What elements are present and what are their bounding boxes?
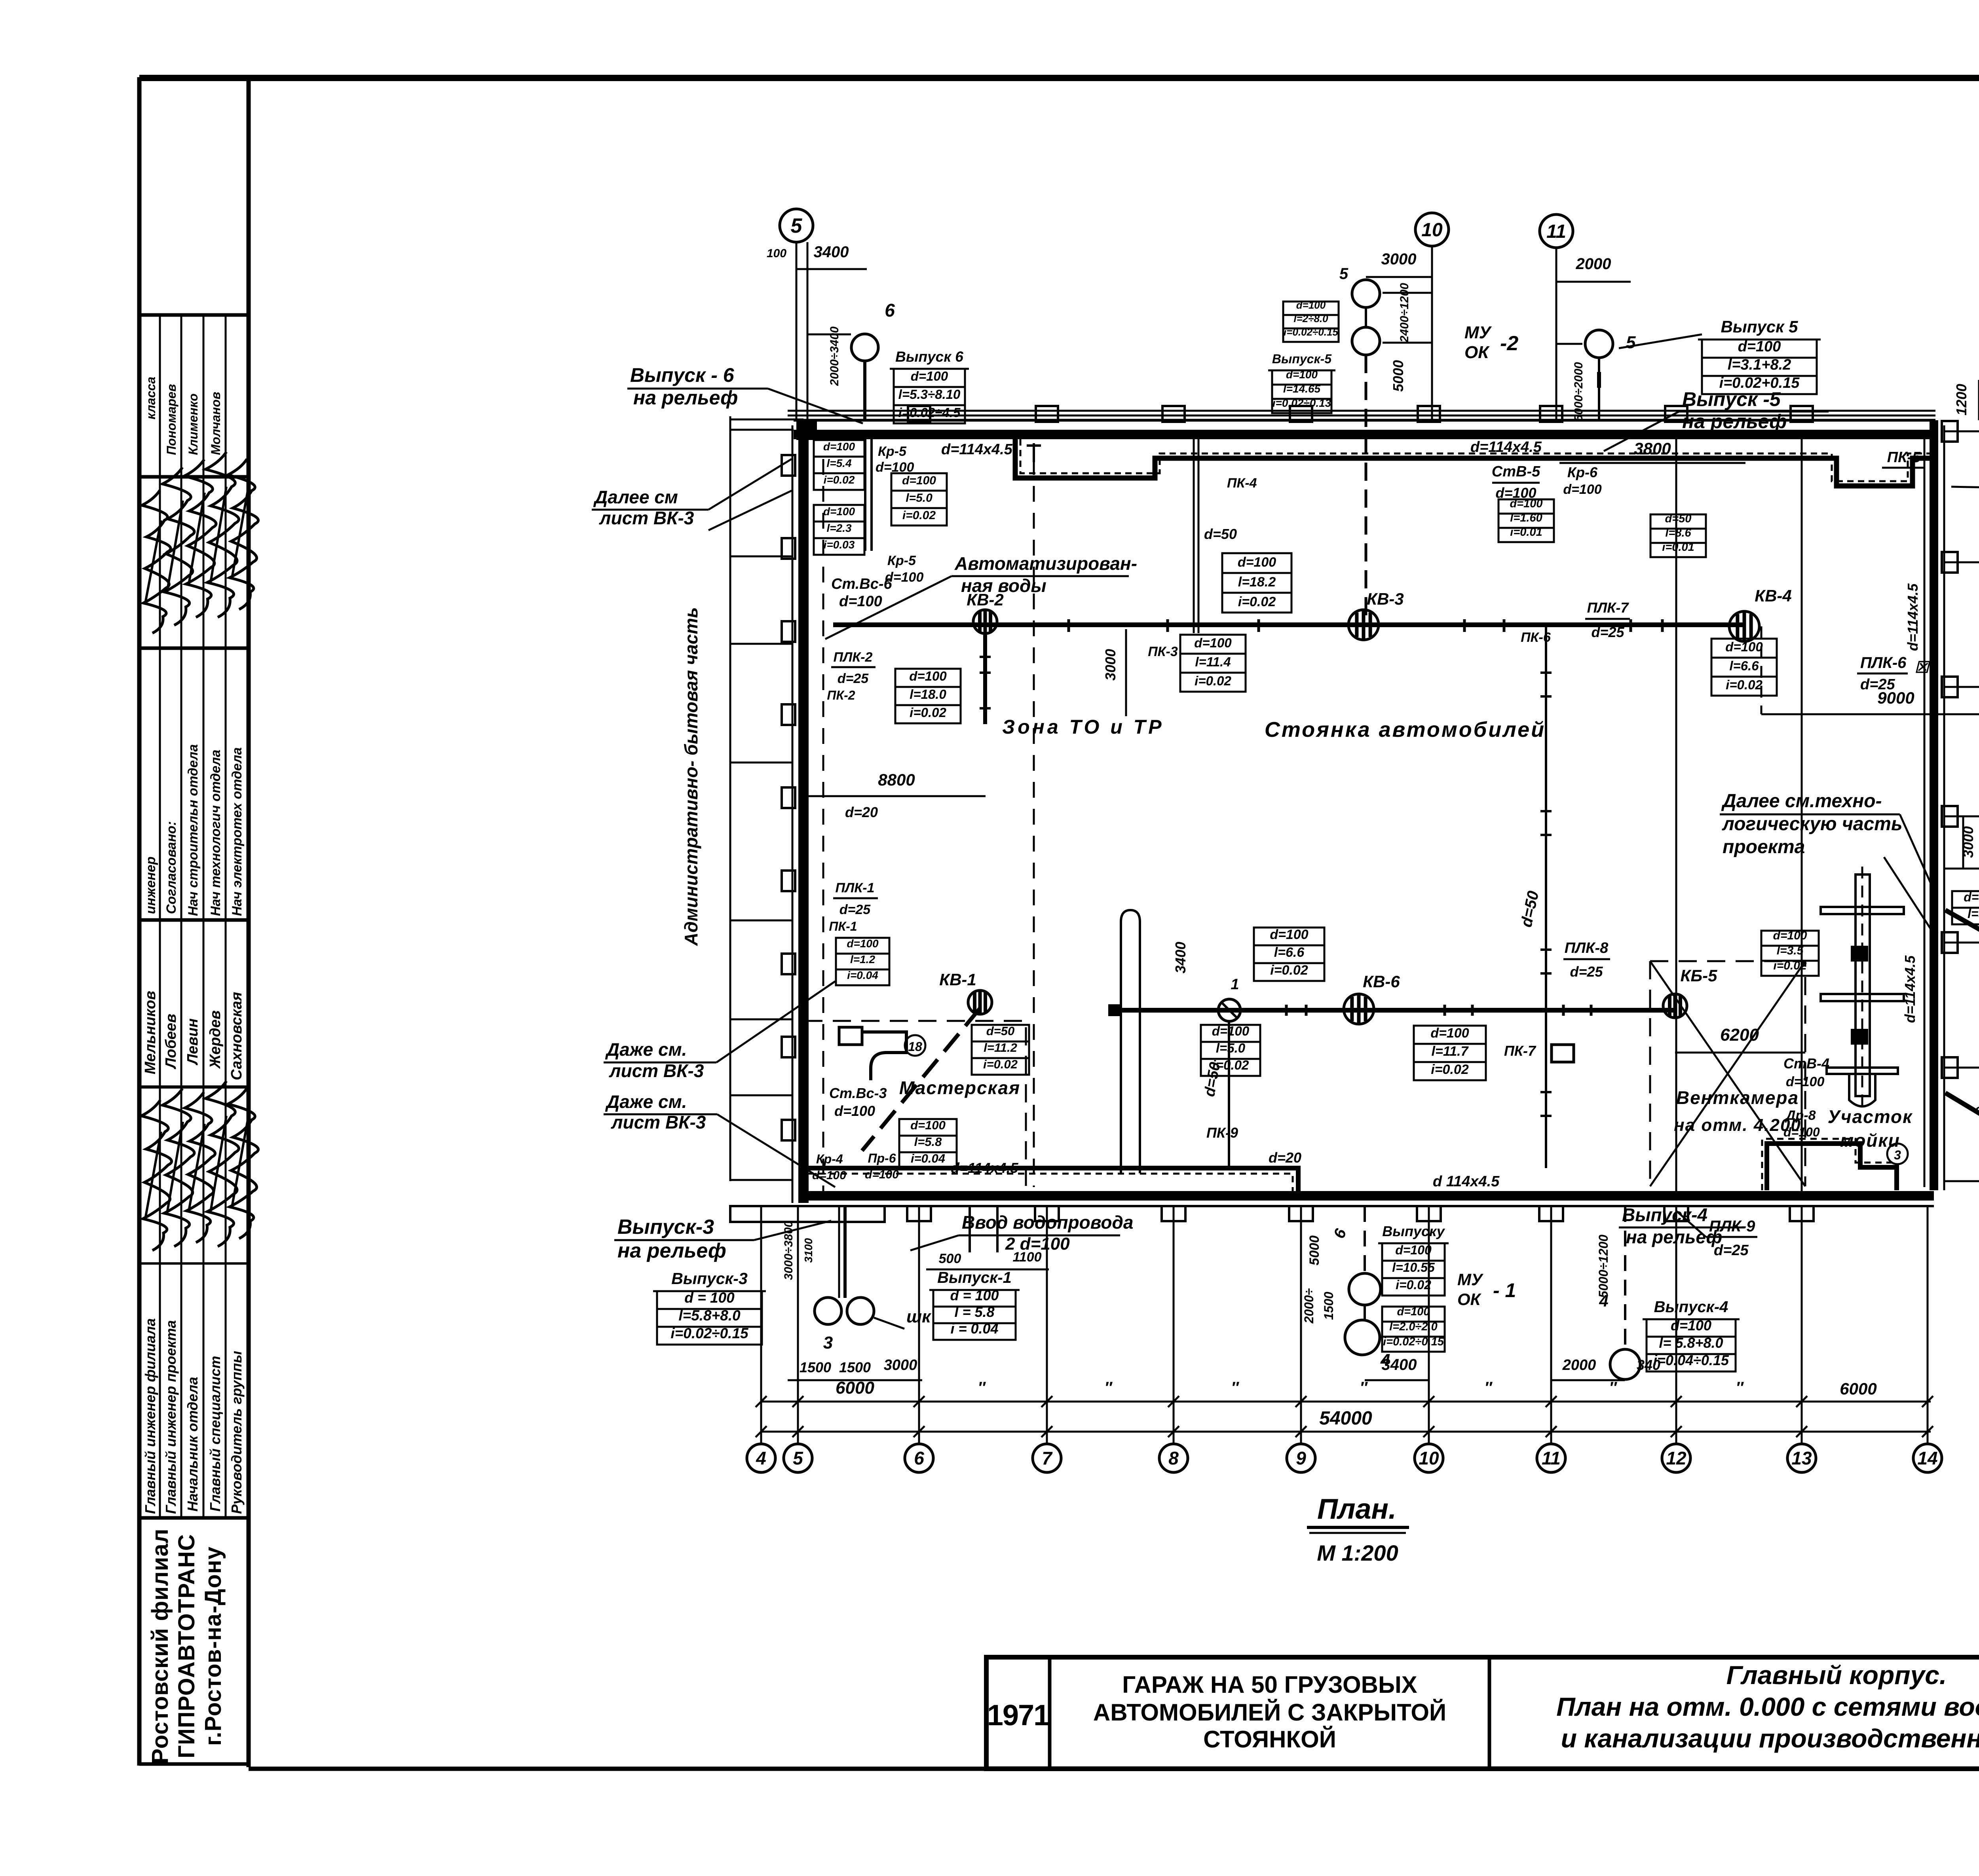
svg-text:Выпуск - 6: Выпуск - 6 [630,364,735,386]
manhole KB-6 [1344,994,1374,1024]
lower row valve circle [1218,999,1240,1021]
svg-text:d=100: d=100 [911,369,948,383]
svg-text:d=114x4.5: d=114x4.5 [941,441,1013,458]
dim 3800 [1559,462,1745,464]
dim 3400 bottom [1367,1379,1429,1381]
svg-text:3: 3 [823,1333,833,1352]
svg-text:Кр-5: Кр-5 [878,444,907,459]
main sewer pipe upper KB row [833,622,1744,627]
svg-text:1: 1 [1231,976,1239,993]
svg-text:3000÷3800: 3000÷3800 [782,1221,795,1280]
svg-text:и канализации производственно: и канализации производственной части. [1561,1724,1979,1753]
svg-text:3400: 3400 [1172,942,1189,973]
KB1 diagonal branch [862,1008,980,1151]
svg-text:l=1.2: l=1.2 [850,953,875,966]
svg-text:5: 5 [793,1448,803,1468]
svg-text:i=0.01: i=0.01 [1662,541,1694,554]
right wall pilasters [1942,421,1958,442]
svg-text:l=3.1+8.2: l=3.1+8.2 [1728,357,1791,373]
svg-text:ПК-9: ПК-9 [1206,1125,1238,1141]
plumbing fixtures [863,1032,906,1080]
svg-text:СтВ-4: СтВ-4 [1783,1055,1829,1072]
top axis 11 [1555,248,1557,420]
svg-text:ПЛК-6: ПЛК-6 [1860,654,1907,671]
svg-text:d=100: d=100 [1725,639,1763,654]
svg-text:План на отм. 0.000 с сетями: План на отм. 0.000 с сетями водопровода [1556,1692,1979,1721]
svg-text:Даже см.: Даже см. [605,1039,687,1060]
svg-text:ПЛК-1: ПЛК-1 [836,880,875,895]
svg-text:54000: 54000 [1319,1408,1372,1429]
d100 l20 table [1382,1307,1445,1322]
svg-text:i=0.02÷0.13: i=0.02÷0.13 [1272,397,1331,409]
svg-text:Выпуск -5: Выпуск -5 [1682,388,1781,410]
svg-text:d=100: d=100 [1510,497,1542,510]
water pipe along top wall d114x4.5 [788,410,1935,412]
bottom dimension line 54000 row [761,1431,1931,1433]
svg-text:Начальник отдела: Начальник отдела [184,1377,201,1512]
svg-text:Выпуск 5: Выпуск 5 [1721,317,1799,336]
sidebar divider 2b [139,647,249,650]
plus marks KB2 branch [980,656,991,658]
svg-text:″: ″ [1104,1379,1113,1396]
sidebar band E signatures [141,1100,172,1250]
svg-text:l=5.8+8.0: l=5.8+8.0 [678,1307,741,1324]
svg-text:ПК-4: ПК-4 [1227,476,1257,491]
building top wall [794,419,1935,422]
dim 8800 [808,795,986,797]
svg-text:5000: 5000 [1390,360,1406,392]
svg-text:Ввод водопровода: Ввод водопровода [962,1212,1134,1233]
svg-text:1500: 1500 [839,1359,871,1375]
svg-text:лист ВК-3: лист ВК-3 [599,508,694,528]
svg-text:лист ВК-3: лист ВК-3 [609,1060,704,1081]
svg-text:3100: 3100 [802,1238,815,1263]
svg-text:″: ″ [1609,1379,1617,1396]
svg-text:500: 500 [939,1251,961,1266]
svg-text:l=9.0: l=9.0 [1968,907,1979,921]
ventkamera dashed room [1650,961,1805,1186]
sidebar right border [247,77,251,1767]
svg-text:КБ-5: КБ-5 [1681,966,1718,985]
sidebar lane lines [159,315,161,1518]
svg-text:10: 10 [1419,1448,1439,1468]
svg-text:Стоянка автомобилей: Стоянка автомобилей [1265,718,1546,742]
top axis 5 [796,242,798,420]
svg-text:d 114x4.5: d 114x4.5 [1433,1173,1500,1190]
svg-text:l=2.0÷2.0: l=2.0÷2.0 [1389,1320,1438,1333]
sidebar divider 4 [139,1085,249,1089]
dim 2000 340 bottom [1551,1379,1625,1381]
dashed axis left inner [822,459,824,1191]
svg-text:6200: 6200 [1720,1025,1759,1045]
building left wall [798,420,809,1203]
svg-text:СтВ-5: СтВ-5 [1492,463,1540,480]
dim 3400 top left [796,268,867,270]
svg-text:11: 11 [1546,221,1566,242]
svg-text:12: 12 [1666,1448,1687,1468]
svg-text:г.Ростов-на-Дону: г.Ростов-на-Дону [200,1546,226,1746]
svg-text:КВ-4: КВ-4 [1755,586,1792,605]
svg-text:i=0.02: i=0.02 [1238,594,1276,609]
sidebar divider 2 [139,475,249,479]
svg-text:ОК: ОК [1457,1290,1482,1309]
svg-text:d=100: d=100 [1671,1317,1711,1333]
svg-text:i=0.03: i=0.03 [824,539,855,551]
dim 8000 right [1944,868,1979,870]
svg-text:проекта: проекта [1723,837,1805,857]
svg-text:d=25: d=25 [838,671,869,686]
svg-text:i=0.04: i=0.04 [847,969,878,981]
vertical pipe d50 mid [1545,626,1547,1168]
bottom wall pilasters [907,1206,931,1221]
svg-text:3400: 3400 [814,243,849,261]
svg-text:″: ″ [1736,1379,1744,1396]
svg-text:d=50: d=50 [1517,890,1542,929]
svg-text:l = 5.8: l = 5.8 [954,1304,994,1320]
bottom porch [730,1206,885,1222]
svg-text:7: 7 [1042,1448,1053,1468]
svg-text:l=5.0: l=5.0 [1216,1041,1246,1055]
title block divider year [1048,1657,1052,1769]
table d100 l2+80 [1283,302,1339,315]
svg-text:Венткамера: Венткамера [1676,1087,1799,1108]
interior pipe pair x2190 [864,438,866,551]
svg-text:l=14.65: l=14.65 [1283,383,1321,395]
svg-text:инженер: инженер [143,857,158,914]
svg-text:КВ-6: КВ-6 [1363,972,1400,991]
table d50 l112 [972,1025,1029,1041]
svg-text:l=18.0: l=18.0 [910,687,946,702]
axis4 outside stem [760,1223,762,1444]
svg-text:i=0.04: i=0.04 [911,1151,945,1165]
vertical drain col8 top [1193,438,1195,633]
svg-text:d=25: d=25 [1714,1242,1749,1259]
sheet bottom border [249,1767,1979,1771]
svg-text:9: 9 [1296,1448,1306,1468]
table d100 l182 [1222,553,1291,573]
svg-text:1500: 1500 [800,1359,831,1375]
svg-text:Ростовский филиал: Ростовский филиал [147,1528,173,1764]
svg-text:5000÷2000: 5000÷2000 [1572,362,1585,421]
svg-text:d=100: d=100 [823,505,855,518]
svg-text:Участок: Участок [1828,1106,1913,1127]
sidebar left border [137,77,142,1766]
circled 3 wash [1887,1144,1908,1164]
svg-text:d=50: d=50 [986,1024,1015,1038]
svg-text:Выпуск-3: Выпуск-3 [617,1216,714,1239]
dim 6200 [1675,1052,1805,1054]
svg-text:l=6.6: l=6.6 [1729,658,1759,673]
manhole KB-1 [968,990,992,1014]
manhole KB-2 [973,610,997,634]
table d100 l12 [836,938,889,954]
svg-text:Пр-6: Пр-6 [868,1151,896,1165]
vertical pipe d50 left [1228,1021,1230,1168]
svg-text:i=0.02: i=0.02 [1270,963,1308,978]
vypusk4 right assembly [1610,1349,1640,1379]
svg-text:5000÷1200: 5000÷1200 [1596,1235,1611,1298]
svg-text:d=100: d=100 [823,440,855,453]
wash machine [1861,867,1863,1108]
svg-text:d=100: d=100 [1212,1024,1250,1038]
svg-text:на отм. 4.200: на отм. 4.200 [1674,1115,1801,1135]
svg-text:Главный инженер проекта: Главный инженер проекта [163,1320,179,1514]
sidebar divider 5 [139,1262,249,1265]
svg-text:класса: класса [144,377,158,419]
svg-text:i = 0.04: i = 0.04 [950,1320,998,1337]
svg-text:i=0.04÷0.15: i=0.04÷0.15 [1653,1352,1729,1368]
svg-text:″: ″ [1360,1379,1368,1396]
svg-text:ос: ос [1975,1102,1979,1117]
bottom axis stems [760,1206,762,1444]
admin annex top edge [730,419,803,421]
svg-text:l=11.2: l=11.2 [984,1041,1017,1055]
manhole KB-4 [1729,611,1759,641]
svg-text:ОК: ОК [1464,343,1490,362]
dim 2000 top mid [1556,281,1631,283]
svg-text:i=0.02÷0.15: i=0.02÷0.15 [1284,326,1338,338]
table d100 l90 [1952,891,1979,908]
svg-text:Выпуск-5: Выпуск-5 [1272,352,1332,366]
svg-text:i=0.02: i=0.02 [824,474,855,486]
svg-text:2000÷: 2000÷ [1302,1288,1316,1324]
svg-text:d=100: d=100 [1964,890,1979,904]
svg-text:d=100: d=100 [1738,338,1781,355]
svg-text:АВТОМОБИЛЕЙ С ЗАКРЫТОЙ: АВТОМОБИЛЕЙ С ЗАКРЫТОЙ [1093,1699,1446,1726]
svg-text:l=6.6: l=6.6 [1274,945,1305,960]
svg-text:Главный корпус.: Главный корпус. [1726,1660,1947,1690]
svg-text:Выпуск-1: Выпуск-1 [937,1269,1012,1286]
admin annex west line [729,416,731,1181]
svg-text:d=114x4.5: d=114x4.5 [1905,583,1921,651]
svg-text:☒: ☒ [1914,659,1931,676]
diag pipe to ochistnye bottom [1945,1093,1979,1186]
building corner block [796,420,817,440]
svg-text:логическую часть: логическую часть [1722,814,1902,835]
svg-text:на рельеф: на рельеф [617,1239,726,1262]
svg-text:d=25: d=25 [839,902,871,917]
manhole KB-3 [1348,610,1379,640]
svg-text:2400÷1200: 2400÷1200 [1398,283,1411,343]
svg-text:d=100: d=100 [1286,368,1318,381]
table d100 l66 mid [1254,928,1324,945]
svg-text:4: 4 [1380,1351,1390,1370]
svg-text:3000: 3000 [1102,649,1119,681]
svg-text:Мельников: Мельников [142,991,159,1074]
svg-text:Мастерская: Мастерская [899,1077,1020,1098]
svg-text:d=100: d=100 [909,669,947,683]
admin annex partitions [730,556,792,558]
svg-text:3800: 3800 [1634,439,1671,458]
svg-text:d=100: d=100 [910,1118,946,1132]
svg-text:Выпуск-4: Выпуск-4 [1654,1298,1728,1316]
sheet top border [139,75,1979,81]
svg-text:на рельеф: на рельеф [633,387,738,409]
svg-text:d=20: d=20 [1269,1150,1301,1166]
svg-text:Жердев: Жердев [207,1010,224,1069]
svg-text:мойки: мойки [1840,1130,1900,1151]
svg-text:5: 5 [1339,265,1348,283]
table d100 l58 [899,1119,957,1136]
svg-text:d=100: d=100 [865,1168,899,1181]
svg-text:ПК-7: ПК-7 [1504,1043,1536,1059]
svg-text:Нач электротех отдела: Нач электротех отдела [230,747,245,916]
svg-text:ПК-3: ПК-3 [1148,644,1178,659]
top axis 10 [1431,246,1433,420]
svg-text:ПК-2: ПК-2 [827,688,855,702]
svg-text:Зона ТО и ТР: Зона ТО и ТР [1002,716,1164,738]
dim 1500 1500 3000 [788,1379,922,1381]
svg-text:шк: шк [906,1307,932,1326]
svg-text:М 1:200: М 1:200 [1317,1540,1398,1565]
svg-text:ная воды: ная воды [961,575,1046,596]
svg-text:10: 10 [1421,220,1443,241]
sidebar divider 6 [139,1516,249,1520]
svg-text:Кр-5: Кр-5 [887,553,916,568]
vypusk3 stem [843,1206,847,1298]
drain channel bottom left [807,1168,1298,1192]
svg-text:Выпуску: Выпуску [1382,1223,1445,1239]
pipe tick marks upper main [1067,619,1070,632]
svg-text:d = 100: d = 100 [684,1290,735,1306]
svg-text:1971: 1971 [987,1699,1049,1732]
svg-text:ПЛК-7: ПЛК-7 [1587,599,1630,616]
svg-text:Левин: Левин [184,1019,201,1066]
svg-text:i=0.02÷0.15: i=0.02÷0.15 [670,1325,749,1341]
svg-text:Выпуск 6: Выпуск 6 [895,349,963,365]
svg-text:ПЛК-9: ПЛК-9 [1709,1218,1755,1235]
vypusk5 right assembly [1585,330,1613,358]
left wall pilasters [782,455,795,476]
T mark top drain [1033,443,1035,462]
svg-text:2000: 2000 [1576,255,1611,273]
diag pipe to ochistnye top [1945,910,1979,997]
KB2 branch down [983,634,987,724]
svg-text:14: 14 [1917,1448,1937,1468]
svg-text:Молчанов: Молчанов [209,392,223,455]
svg-text:i=0.01: i=0.01 [1510,526,1542,539]
svg-text:Нач строительн отдела: Нач строительн отдела [186,744,201,916]
svg-text:Выпуск-4: Выпуск-4 [1622,1205,1707,1225]
svg-text:l=11.4: l=11.4 [1195,654,1231,669]
table d100 l180 [895,669,961,687]
svg-text:Главный инженер филиала: Главный инженер филиала [142,1318,158,1514]
dim lines bottom mid [1365,1379,1429,1381]
svg-text:″: ″ [1231,1379,1239,1396]
svg-text:l=2.3: l=2.3 [826,522,851,534]
table d100 l160 [1498,499,1554,514]
dim 9000 from KB4 [1761,626,1762,714]
svg-text:6: 6 [885,300,895,321]
svg-text:i=0.02: i=0.02 [910,705,946,720]
svg-text:Согласовано:: Согласовано: [164,821,179,914]
manhole KB-5 vent [1663,994,1687,1018]
svg-text:l=5.4: l=5.4 [826,457,851,469]
svg-text:18: 18 [908,1039,922,1054]
svg-text:″: ″ [978,1379,986,1396]
svg-text:d=100: d=100 [1270,927,1308,942]
main sewer pipe lower KB row [1114,1008,1675,1013]
dashed axis col6 [1033,459,1035,1187]
svg-text:Клименко: Клименко [186,393,200,455]
svg-text:d=50: d=50 [1204,526,1237,542]
svg-text:d=100: d=100 [839,593,882,610]
svg-text:4: 4 [756,1448,766,1468]
svg-text:План.: План. [1317,1493,1396,1525]
svg-text:13: 13 [1791,1448,1812,1468]
pipe tick marks verticals [1540,671,1552,674]
svg-text:3000: 3000 [884,1357,917,1373]
svg-text:Ст.Вс-3: Ст.Вс-3 [829,1085,887,1101]
svg-text:l=1.60: l=1.60 [1510,512,1542,524]
top wall pilasters [908,406,930,422]
svg-text:Пономарев: Пономарев [164,384,179,455]
svg-text:ПЛК-8: ПЛК-8 [1565,940,1609,956]
svg-text:Сахновская: Сахновская [228,992,245,1080]
vypusk3 shk circles [815,1297,841,1324]
svg-text:6: 6 [1330,1226,1350,1241]
svg-text:i=0.02: i=0.02 [1195,673,1231,688]
svg-text:- 1: - 1 [1493,1279,1516,1301]
right axis stubs and bubbles [1944,431,1979,432]
interior axis line 12 [1675,439,1677,1195]
svg-text:d=50: d=50 [1665,512,1692,525]
bottom axis bubbles [747,1444,775,1472]
building right wall [1930,420,1938,1190]
svg-text:1200: 1200 [1953,384,1970,415]
svg-text:d=25: d=25 [1570,964,1603,980]
svg-text:КВ-3: КВ-3 [1367,590,1404,608]
mu ok1 circles [1349,1273,1381,1305]
svg-text:ПК-6: ПК-6 [1521,630,1551,645]
svg-text:d=100: d=100 [1563,482,1601,497]
svg-text:ПК-1: ПК-1 [829,919,857,933]
svg-text:d=20: d=20 [845,804,878,820]
svg-text:l=18.2: l=18.2 [1238,575,1276,590]
svg-text:8800: 8800 [878,770,915,789]
svg-text:Выпуск-3: Выпуск-3 [671,1269,748,1288]
svg-text:l=5.8: l=5.8 [914,1135,942,1149]
svg-text:d=100: d=100 [847,937,879,950]
svg-text:ПК-5: ПК-5 [1887,449,1921,466]
svg-text:d=100: d=100 [1395,1243,1432,1257]
svg-text:d=100: d=100 [1397,1305,1430,1318]
sidebar bottom border [139,1762,249,1766]
svg-text:Автоматизирован-: Автоматизирован- [954,553,1137,574]
table d100 l35 right [1761,931,1819,946]
svg-text:i=0.02÷0.15: i=0.02÷0.15 [1383,1335,1444,1348]
svg-text:d=100: d=100 [1194,635,1232,650]
svg-text:на рельеф: на рельеф [1682,410,1787,432]
svg-text:Кр-6: Кр-6 [1567,464,1598,480]
svg-text:Ст.Вс-6: Ст.Вс-6 [831,576,893,592]
svg-text:i=0.02: i=0.02 [1396,1278,1431,1292]
svg-text:d=100: d=100 [1430,1026,1469,1041]
svg-text:d=100: d=100 [1238,555,1276,570]
left wall small tables top [814,440,864,457]
svg-text:l= 5.8+8.0: l= 5.8+8.0 [1659,1335,1723,1351]
svg-text:Административно- бытовая часть: Административно- бытовая часть [681,607,701,946]
svg-text:d = 100: d = 100 [950,1287,999,1303]
masterskaya dashed room [804,1021,1026,1186]
svg-text:11: 11 [1542,1448,1561,1468]
svg-text:l=8.6: l=8.6 [1665,527,1691,539]
svg-text:5000: 5000 [1307,1235,1322,1265]
drain channel top [1015,438,1934,486]
svg-text:l=3.5: l=3.5 [1777,944,1804,957]
table d100 l114 [1180,635,1246,654]
svg-text:Руководитель группы: Руководитель группы [228,1351,245,1514]
